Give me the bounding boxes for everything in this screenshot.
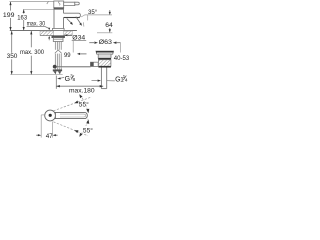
deck bottom line: [40, 35, 72, 37]
stream arrow right: [76, 17, 82, 26]
break tick on extension line: [47, 1, 49, 4]
faucet cartridge box: [54, 1, 64, 8]
leader to spout corner: [81, 15, 85, 17]
top view lever: [55, 112, 87, 118]
spout: [64, 13, 81, 17]
break mark on hoses: [55, 50, 62, 53]
waste upper body: [98, 54, 111, 58]
leader max30 to deck: [45, 27, 49, 29]
swing arc arrowheads: [86, 109, 89, 113]
svg-text:55°: 55°: [83, 127, 93, 135]
wire: extension line top (lever top, 199): [10, 1, 54, 3]
dimension 350: [11, 31, 13, 75]
mounting nut: [53, 38, 63, 42]
rod ball joint: [53, 65, 57, 69]
svg-text:4: 4: [125, 77, 128, 83]
svg-text:47: 47: [46, 133, 53, 138]
stream arrow left: [67, 19, 73, 25]
waste rod lever: [91, 62, 99, 66]
svg-text:64: 64: [105, 22, 113, 29]
Ø34 drop line: [72, 41, 74, 53]
base plinth: [52, 29, 64, 31]
waste: deck extension line: [97, 32, 112, 34]
dimension 163: [23, 10, 25, 31]
G 1 1/4 leader arrow at pipe: [92, 80, 115, 82]
svg-text:max.180: max.180: [69, 87, 95, 94]
svg-text:max. 300: max. 300: [20, 49, 44, 56]
47 dimension: [40, 115, 42, 138]
hose cones: [53, 71, 56, 74]
bottom extension line (hose ends): [10, 74, 62, 76]
supply hoses / shank: [55, 42, 61, 70]
lever handle (side view): [64, 2, 75, 5]
faucet body: [54, 9, 64, 29]
waste tailpipe: [101, 68, 106, 89]
deck hatched section right: [64, 31, 73, 35]
svg-text:199: 199: [3, 12, 15, 19]
dimension max.180: [56, 76, 103, 89]
waste dark band: [98, 58, 111, 60]
vertical reference tick: [87, 15, 89, 20]
washer under deck: [52, 36, 65, 38]
dimension max.300: [30, 31, 32, 75]
svg-text:Ø63: Ø63: [99, 39, 113, 46]
top view circle (body): [45, 110, 56, 121]
svg-text:350: 350: [7, 53, 18, 60]
G3/8 leader arrow: [57, 77, 64, 79]
arc outer arrowhead lower: [79, 133, 82, 137]
hose end fittings bar: [53, 69, 62, 71]
svg-text:99: 99: [64, 52, 71, 59]
wire: extension line (body top, 163): [23, 8, 64, 10]
99 dim arrow (pointing left): [77, 53, 87, 55]
35° underline / extension to 64-dim: [85, 14, 113, 16]
waste flange: [96, 51, 114, 54]
deck hatched section left: [40, 31, 54, 35]
svg-text:40-53: 40-53: [114, 55, 130, 62]
waste hatched nut: [98, 60, 111, 66]
top view: 55° lower label: [82, 126, 93, 133]
swing line arrowheads: [74, 101, 78, 104]
arc outer arrowhead upper: [79, 94, 82, 98]
dimension 199: [9, 2, 11, 31]
deck surface line: [10, 30, 77, 32]
top view: dashed swing lines: [53, 95, 91, 136]
dimension 64: [109, 10, 111, 33]
pop-up rod (horizontal): [55, 65, 91, 67]
svg-text:8: 8: [73, 77, 76, 83]
Ø63 right extension line: [119, 42, 121, 52]
